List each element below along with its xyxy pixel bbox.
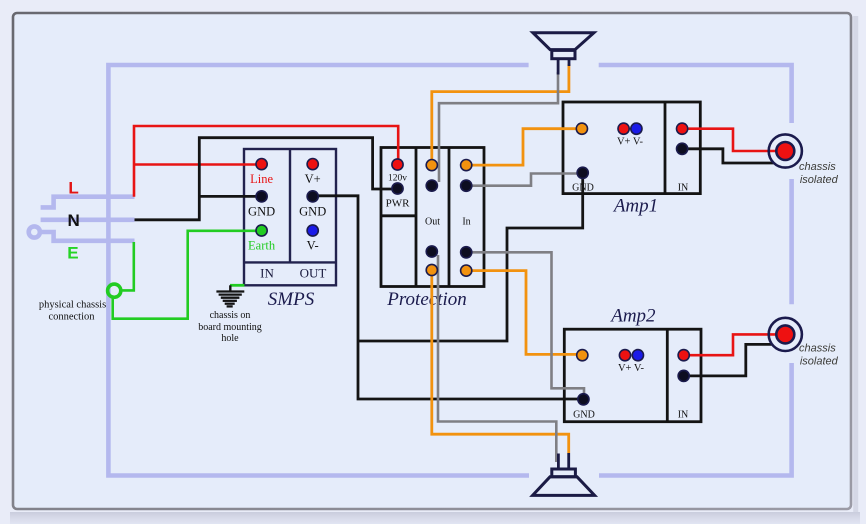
svg-text:hole: hole [221,333,239,344]
wire Amp2 IN- to J2 shield (black) [684,344,772,376]
Amp2 GND terminal [578,394,589,405]
SMPS IN GND terminal [256,191,267,202]
protection In- top terminal [461,180,472,191]
protection Out+ bottom terminal [426,264,437,275]
svg-text:V+ V-: V+ V- [618,363,645,374]
RCA jack J2 [769,318,802,351]
svg-text:In: In [462,217,470,228]
SMPS V+ terminal [307,159,318,170]
chassis boundary [108,65,791,476]
protection 120v terminal [392,159,403,170]
svg-text:physical chassis: physical chassis [39,300,106,311]
wire Earth net (green) [113,231,258,319]
wire Amp1 IN- to J1 shield (black) [682,149,773,163]
svg-text:Line: Line [250,172,273,186]
svg-text:Amp2: Amp2 [609,306,656,327]
svg-text:isolated: isolated [800,356,839,368]
svg-text:V-: V- [307,239,319,253]
svg-text:IN: IN [260,266,274,281]
svg-text:SMPS: SMPS [268,289,315,310]
wire Amp2 IN+ to J2 (red) [684,334,776,355]
RCA jack J1 [769,134,802,167]
Amp2 IN+ terminal [678,350,689,361]
Amp1 IN+ terminal [677,123,688,134]
wire In+ top to Amp1 V+ (orange) [466,129,578,165]
Amp2 V+ terminal [577,350,588,361]
Amp1 IN- terminal [677,143,688,154]
SMPS Line terminal [256,159,267,170]
Amp1 V- indicator [631,123,642,134]
SMPS Earth terminal [256,225,267,236]
protection board outline [381,148,484,287]
protection Out+ top terminal [426,160,437,171]
mains N terminal [41,218,135,223]
svg-text:V+ V-: V+ V- [617,137,644,148]
svg-text:connection: connection [48,312,95,323]
svg-text:Protection: Protection [386,289,467,310]
wire SMPS OUT GND to Amp2 GND (black) [315,196,580,399]
svg-text:chassis on: chassis on [210,310,251,321]
protection Out- top terminal [426,180,437,191]
wire Amp1 GND to ground bus (black) [358,176,583,341]
speaker SPK1 [533,33,594,75]
svg-text:GND: GND [299,205,326,219]
svg-text:L: L [68,179,78,198]
svg-text:Out: Out [425,217,440,228]
svg-text:isolated: isolated [800,174,839,186]
wire In- bottom to Amp2 GND (gray) [466,252,584,394]
Amp2 IN- terminal [678,370,689,381]
protection PWR terminal [392,183,403,194]
svg-text:chassis: chassis [799,343,836,355]
wire In- top to Amp1 GND (gray) [466,174,578,186]
wire In+ bottom to Amp2 V+ (orange) [466,271,578,355]
Amp1 GND terminal [577,167,588,178]
Amp2 outline [564,329,701,422]
svg-text:120v: 120v [388,174,407,184]
wire SPK2 return (gray) [438,255,556,462]
chassis ground symbol [216,285,244,306]
Amp1 outline [563,102,700,194]
protection In+ top terminal [461,160,472,171]
wire N branch to SMPS IN GND (black) [199,195,258,198]
svg-text:N: N [67,211,79,230]
svg-text:PWR: PWR [386,198,411,210]
svg-text:chassis: chassis [799,161,836,173]
svg-text:Earth: Earth [248,239,276,253]
wire Out+ top to speaker SPK1 (orange) [432,64,569,162]
protection In+ bottom terminal [461,265,472,276]
svg-text:OUT: OUT [300,266,327,281]
svg-text:IN: IN [678,183,689,194]
mains L terminal [41,197,135,208]
SMPS board outline [244,149,336,285]
svg-text:Amp1: Amp1 [612,196,658,217]
svg-text:GND: GND [573,410,595,421]
svg-text:V+: V+ [305,172,321,186]
wire Amp1 IN+ to J1 (red) [682,129,775,151]
wire Out+ bottom to speaker SPK2 (orange) [432,273,569,453]
Amp1 V+ indicator [618,123,629,134]
wire L to 120v (red) [134,126,398,197]
protection In- bottom terminal [461,247,472,258]
physical chassis connection point [108,284,121,297]
svg-text:IN: IN [678,410,689,421]
protection Out- bottom terminal [426,246,437,257]
wire SMPS chassis stub (green) [230,284,244,287]
Amp2 V+ indicator [619,350,630,361]
wire E terminal to chassis point (green) [121,242,134,290]
wire N to Protection PWR (black) [135,138,394,220]
Amp1 V+ terminal [576,123,587,134]
wire red branch to SMPS Line [134,163,258,166]
svg-text:E: E [67,243,78,262]
mains E terminal [29,226,135,240]
svg-text:board mounting: board mounting [198,322,262,333]
SMPS V- terminal [307,225,318,236]
speaker SPK2 [533,453,595,495]
wire SPK1 return (gray) [439,72,558,182]
svg-text:GND: GND [248,205,275,219]
Amp2 V- indicator [632,350,643,361]
SMPS OUT GND terminal [307,191,318,202]
